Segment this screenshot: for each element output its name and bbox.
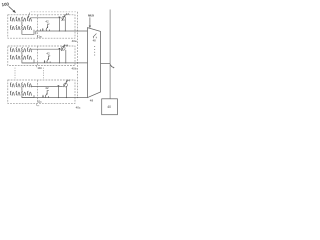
M3 current sensor circle [64,83,68,87]
MUX output wire [101,62,111,64]
M2 top wire [31,48,62,50]
control line vertical x=77.5 [77,12,79,98]
M1 wire sensor drop [64,20,66,31]
M3 stub arrow on mid wire [42,95,44,98]
svg-text:44: 44 [65,43,69,47]
M2 collector wire [22,59,34,63]
M1 battery cells row 1 [10,17,31,21]
svg-text:48: 48 [93,39,97,43]
M2 current arrow on top wire [58,48,60,50]
M3 current arrow on top wire [57,85,59,87]
module M2 outer dashed box [8,46,75,66]
M3 series link wire between rows [21,87,23,91]
output node arrow mark [110,65,114,69]
M2 series link wire between rows [21,52,23,55]
M1 battery cells row 2 [10,26,31,30]
M2 battery cells row 2 [10,55,31,59]
svg-text:MUX: MUX [88,13,94,17]
mux input arrowhead [89,26,91,29]
M3 sensor drop wire [65,86,67,98]
svg-text:42: 42 [45,20,49,24]
M3 mid wire [22,97,88,99]
module M1 outer dashed box [8,15,75,38]
M2 tap wire [58,49,60,63]
junction dots [58,30,78,98]
M3 battery cells row 1 [10,83,31,87]
M1 mid wire [36,30,88,32]
M2 wire sensor drop [65,50,67,63]
M3 sensor arrow [63,80,67,87]
M3 collector wire [22,95,34,97]
svg-text:40: 40 [107,105,111,109]
M3 switch SW3 [45,90,49,97]
controller box [102,99,118,115]
M2 stub arrow on mid wire [44,60,46,63]
svg-text:40a: 40a [72,39,77,43]
leader arrow from label 100 [9,6,16,13]
MUX ellipsis dots [93,46,96,55]
svg-text:48: 48 [90,99,94,103]
M1 series link wire between rows [21,21,23,25]
leader arrow into cells [28,13,30,19]
svg-text:11a: 11a [37,35,42,39]
module M2 cell-compartment dashed divider [36,46,38,66]
M1 switch SW1 [46,24,50,31]
M3 battery cells row 2 [10,91,31,95]
M2 battery cells row 1 [10,48,31,52]
M1 current arrow on top wire [58,17,60,19]
ellipsis dashed line a between modules [14,68,16,80]
module M3 outer dashed box [8,80,75,103]
M1 node stub [39,29,41,31]
svg-text:44: 44 [66,79,70,83]
M2 mid wire [22,62,88,64]
M1 wire collector to mid bus [35,31,37,34]
output bus wire [109,10,111,99]
M2 sensor arrow [61,44,65,51]
svg-text:42: 42 [45,86,49,90]
M1 sensor arrow [62,14,66,21]
MUX select line [89,17,91,26]
svg-text:100: 100 [1,1,9,7]
svg-text:11c: 11c [37,100,42,104]
svg-text:40b: 40b [72,67,77,71]
svg-text:11b: 11b [37,66,42,70]
multiplexer MUX trapezoid [88,28,101,98]
M2 switch SW2 [47,56,51,63]
M1 stub arrow on mid wire [42,28,44,31]
M2 current sensor circle [61,46,65,50]
M3 top wire [31,85,63,87]
svg-text:42: 42 [46,52,50,56]
ellipsis dashed line b between modules [43,68,45,80]
M1 current sensor circle [62,16,66,20]
module M1 cell-compartment dashed divider [36,15,38,38]
module M3 cell-compartment dashed divider [36,80,38,103]
M1 tap wire [58,18,60,31]
svg-text:40c: 40c [76,105,81,109]
M3 tap wire [57,86,59,97]
leader line horizontal dashed [31,11,78,13]
MUX internal switch glyph [93,34,96,39]
M1 collector wire [22,30,34,35]
M1 top wire [31,17,62,19]
svg-text:44: 44 [66,12,70,16]
